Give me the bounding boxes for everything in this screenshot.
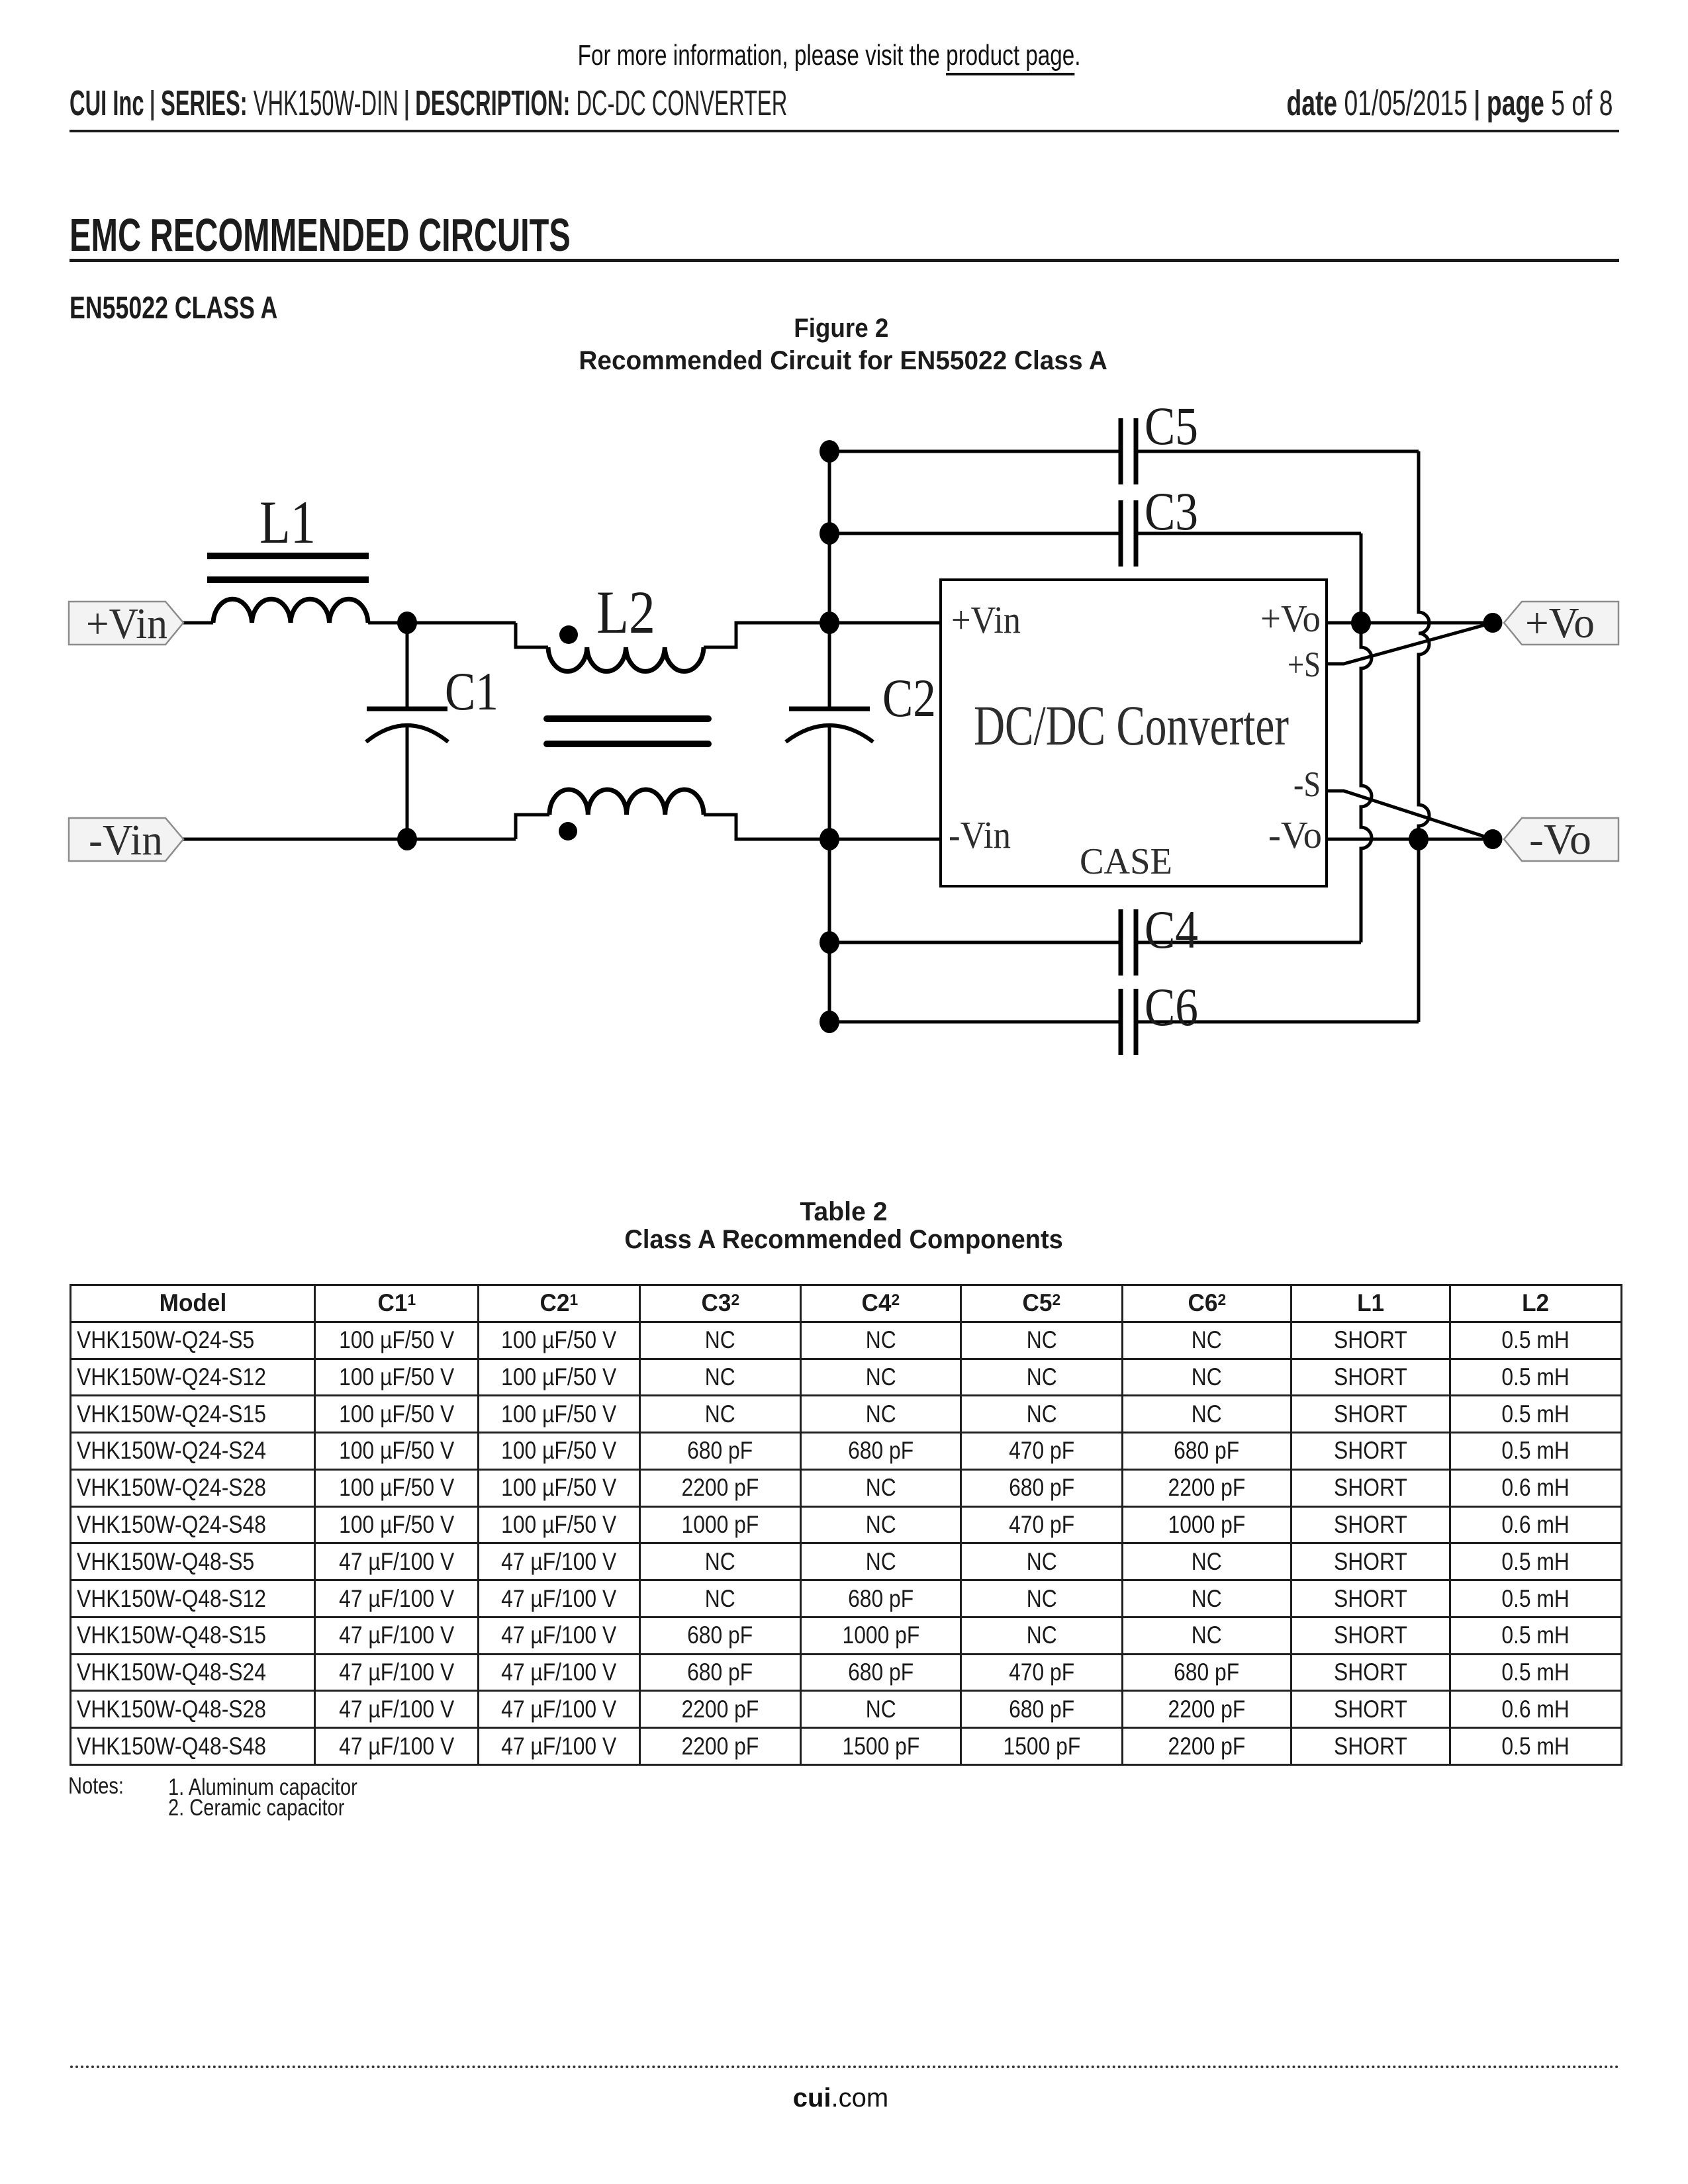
node dot: C1/-Vin junction xyxy=(397,828,417,850)
svg-text:DC/DC Converter: DC/DC Converter xyxy=(974,694,1289,757)
svg-text:C1: C1 xyxy=(445,661,498,721)
wire: +Vo output xyxy=(1327,621,1493,625)
wire: C6 branch right xyxy=(1138,1021,1419,1024)
wire: C1 column lower xyxy=(406,725,409,839)
svg-text:+Vo: +Vo xyxy=(1260,597,1321,640)
svg-text:+Vo: +Vo xyxy=(1525,599,1595,647)
wire: -Vo output xyxy=(1327,838,1493,841)
svg-text:-Vin: -Vin xyxy=(89,816,163,864)
svg-text:+S: +S xyxy=(1288,645,1321,684)
phase dot L2 bottom xyxy=(559,822,577,841)
wire: -S sense to -Vo terminal xyxy=(1327,791,1493,839)
wire: vertical A (C3 to C4) with hops xyxy=(1361,533,1372,942)
capacitor C2 plates xyxy=(789,707,870,711)
top notice xyxy=(0,39,1688,72)
figure captions xyxy=(0,314,1688,343)
node dot: C4 left junction xyxy=(820,931,839,954)
footer dotted rule xyxy=(70,2066,1620,2068)
svg-text:-S: -S xyxy=(1293,764,1321,804)
wire: +S sense to +Vo terminal xyxy=(1327,623,1493,664)
svg-text:L1: L1 xyxy=(259,488,316,556)
wire: L2 bottom winding exit step to node xyxy=(704,815,941,839)
table captions xyxy=(0,1197,1688,1227)
svg-text:C2: C2 xyxy=(882,668,936,728)
node dot: C2/+Vin junction xyxy=(820,612,839,634)
header bar left xyxy=(70,83,1256,124)
port tag +Vo xyxy=(1504,602,1618,645)
capacitor C5 plates xyxy=(1121,418,1136,484)
svg-text:C4: C4 xyxy=(1145,899,1198,960)
choke L2 core bars xyxy=(547,719,708,744)
inductor L1 core bars xyxy=(207,556,369,580)
inductor L1 coil xyxy=(213,599,368,623)
footer cui.com xyxy=(0,2083,1685,2113)
EN55022 CLASS A xyxy=(70,289,344,326)
wire: C5 branch right xyxy=(1138,450,1419,453)
svg-text:L2: L2 xyxy=(596,578,655,646)
wire: C1 column upper xyxy=(406,623,409,709)
node dot: -Vo terminal xyxy=(1483,829,1503,849)
wire: C4 branch left xyxy=(829,941,1119,944)
wire: L2 top winding entry step xyxy=(516,623,548,647)
wire: L1 to node A and to L2 step xyxy=(368,621,516,625)
svg-text:CASE: CASE xyxy=(1080,841,1172,882)
node dot: C2/-Vin junction xyxy=(820,828,839,850)
capacitor C6 plates xyxy=(1121,989,1136,1055)
wire: L2 bottom winding entry step xyxy=(516,815,549,839)
wire: C2 column upper xyxy=(828,451,831,709)
notes xyxy=(68,1773,135,1799)
wire: -Vin rail to L2 bottom step xyxy=(183,838,516,841)
node dot: L1/C1 junction xyxy=(397,612,417,634)
node dot: C3 left junction xyxy=(820,522,839,545)
capacitor C3 plates xyxy=(1121,500,1136,567)
choke L2 bottom winding xyxy=(549,790,704,815)
svg-text:C5: C5 xyxy=(1145,396,1198,456)
svg-text:+Vin: +Vin xyxy=(951,598,1021,641)
capacitor C4 plates xyxy=(1121,909,1136,976)
wire: +Vin tag to L1 xyxy=(183,621,213,625)
wire: C3 branch right xyxy=(1138,532,1361,535)
phase dot L2 top xyxy=(559,625,578,644)
svg-text:+Vin: +Vin xyxy=(86,600,167,648)
capacitor C1 plates xyxy=(367,707,447,711)
svg-text:C6: C6 xyxy=(1145,977,1198,1037)
node dot: C5 left junction xyxy=(820,440,839,463)
node dot: C6 left junction xyxy=(820,1011,839,1033)
node dot: +Vo/vertical A junction xyxy=(1351,612,1371,634)
DC/DC converter box U1 xyxy=(941,580,1327,886)
EMC heading xyxy=(70,208,790,261)
wire: C5 branch left xyxy=(829,450,1119,453)
wire: C6 branch left xyxy=(829,1021,1119,1024)
wire: L2 top winding exit step to node B xyxy=(704,623,941,647)
svg-text:-Vo: -Vo xyxy=(1268,813,1322,856)
svg-text:C3: C3 xyxy=(1145,481,1198,541)
node dot: -Vo/vertical B junction xyxy=(1409,828,1429,850)
port tag +Vin xyxy=(69,602,183,645)
wire: C2 column lower xyxy=(828,725,831,1022)
wire: C3 branch left xyxy=(829,532,1119,535)
svg-text:-Vin: -Vin xyxy=(949,813,1011,856)
svg-text:-Vo: -Vo xyxy=(1529,815,1591,864)
port tag -Vin xyxy=(69,818,183,861)
table 2 xyxy=(70,1284,1622,1766)
wire: C4 branch right xyxy=(1138,941,1361,944)
port tag -Vo xyxy=(1504,818,1618,861)
wire: vertical B (C5 to C6) with hops xyxy=(1419,451,1429,1022)
header rule xyxy=(70,130,1619,132)
header bar right xyxy=(1140,83,1613,124)
node dot: +Vo terminal xyxy=(1483,613,1503,633)
choke L2 top winding xyxy=(548,647,704,671)
